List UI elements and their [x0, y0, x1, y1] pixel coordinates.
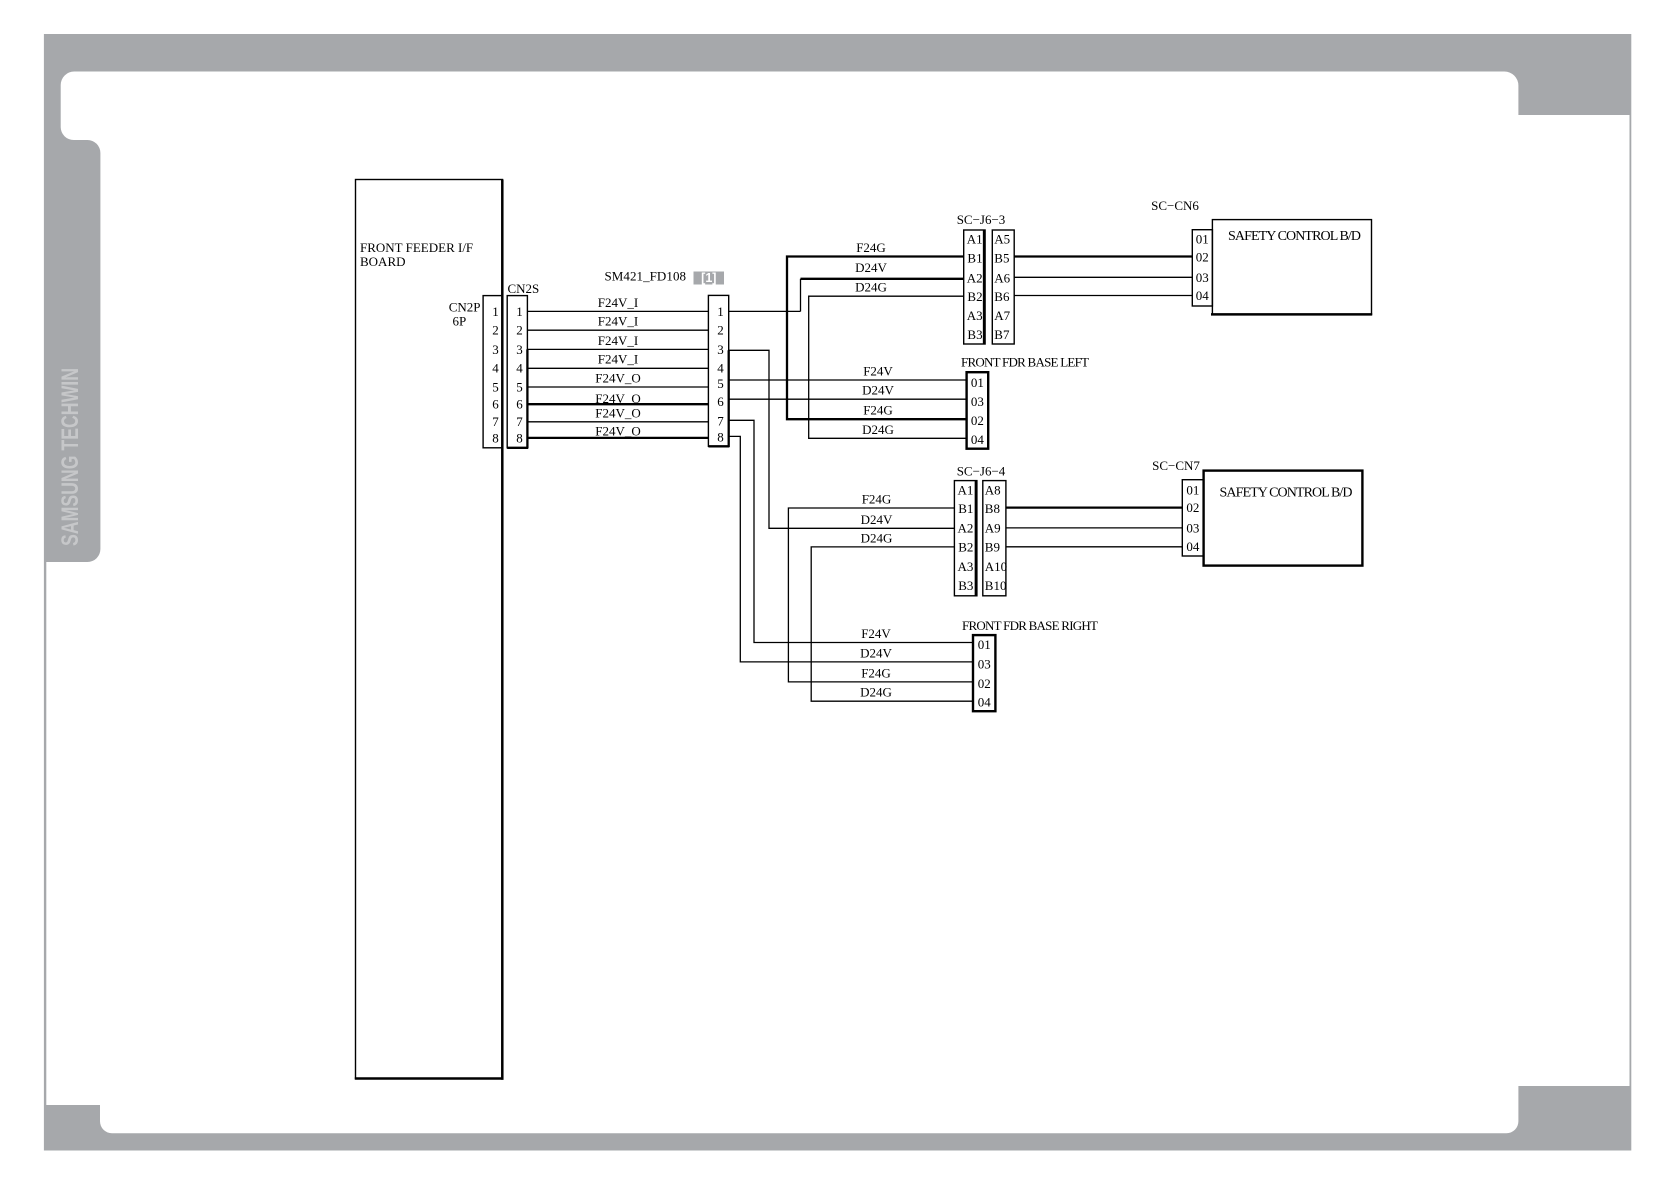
svg-text:7: 7: [492, 414, 499, 429]
svg-text:FRONT FDR BASE LEFT: FRONT FDR BASE LEFT: [961, 355, 1089, 370]
svg-text:01: 01: [1196, 232, 1209, 247]
svg-text:4: 4: [516, 361, 523, 376]
svg-text:B5: B5: [994, 250, 1009, 265]
svg-text:BOARD: BOARD: [360, 254, 406, 269]
svg-text:D24V: D24V: [860, 645, 892, 660]
svg-text:04: 04: [1186, 539, 1200, 554]
svg-text:F24V: F24V: [861, 626, 891, 641]
svg-text:5: 5: [516, 379, 523, 394]
svg-text:B9: B9: [985, 540, 1000, 555]
svg-text:SM421_FD108: SM421_FD108: [605, 269, 687, 284]
svg-text:A5: A5: [994, 231, 1010, 246]
svg-text:2: 2: [516, 323, 523, 338]
svg-text:D24G: D24G: [860, 685, 892, 700]
svg-text:F24G: F24G: [862, 492, 892, 507]
svg-text:A8: A8: [985, 482, 1001, 497]
svg-text:SC−CN7: SC−CN7: [1152, 458, 1200, 473]
svg-text:01: 01: [978, 637, 991, 652]
svg-text:B3: B3: [958, 578, 973, 593]
svg-text:A6: A6: [994, 270, 1010, 285]
svg-text:F24V_I: F24V_I: [598, 352, 638, 367]
svg-text:F24V_I: F24V_I: [598, 295, 638, 310]
svg-text:SAFETY CONTROL B/D: SAFETY CONTROL B/D: [1228, 229, 1361, 244]
svg-text:02: 02: [1196, 250, 1209, 265]
svg-text:SAMSUNG TECHWIN: SAMSUNG TECHWIN: [57, 368, 84, 546]
svg-text:B1: B1: [967, 250, 982, 265]
svg-text:SAFETY CONTROL B/D: SAFETY CONTROL B/D: [1220, 486, 1353, 501]
svg-text:01: 01: [971, 375, 984, 390]
svg-text:6: 6: [717, 394, 724, 409]
svg-text:CN2S: CN2S: [508, 281, 540, 296]
svg-text:1: 1: [492, 304, 499, 319]
svg-text:F24V_I: F24V_I: [598, 333, 638, 348]
svg-text:03: 03: [1186, 520, 1199, 535]
svg-text:F24V_I: F24V_I: [598, 314, 638, 329]
svg-text:SC−J6−4: SC−J6−4: [957, 464, 1006, 479]
svg-text:7: 7: [516, 414, 523, 429]
svg-text:D24G: D24G: [862, 422, 894, 437]
svg-text:F24V_O: F24V_O: [595, 424, 641, 439]
svg-text:F24V_O: F24V_O: [595, 391, 641, 406]
svg-text:5: 5: [717, 376, 724, 391]
svg-text:6P: 6P: [453, 314, 467, 329]
svg-text:D24G: D24G: [861, 530, 893, 545]
svg-text:[1]: [1]: [701, 271, 716, 285]
svg-text:F24V_O: F24V_O: [595, 370, 641, 385]
svg-text:02: 02: [1186, 500, 1199, 515]
svg-text:03: 03: [978, 656, 991, 671]
svg-text:FRONT FDR BASE RIGHT: FRONT FDR BASE RIGHT: [962, 618, 1098, 633]
svg-text:03: 03: [971, 394, 984, 409]
svg-text:F24V_O: F24V_O: [595, 406, 641, 421]
svg-text:FRONT FEEDER I/F: FRONT FEEDER I/F: [360, 240, 473, 255]
svg-text:B2: B2: [958, 540, 973, 555]
svg-text:4: 4: [492, 361, 499, 376]
svg-text:A3: A3: [967, 308, 983, 323]
svg-text:4: 4: [717, 361, 724, 376]
svg-text:A2: A2: [958, 521, 974, 536]
svg-text:3: 3: [492, 342, 499, 357]
svg-text:3: 3: [717, 342, 724, 357]
svg-text:6: 6: [492, 397, 499, 412]
svg-text:A9: A9: [985, 521, 1001, 536]
svg-text:8: 8: [492, 430, 499, 445]
svg-text:SC−J6−3: SC−J6−3: [957, 212, 1006, 227]
svg-text:A10: A10: [985, 559, 1007, 574]
svg-text:A1: A1: [958, 482, 974, 497]
svg-text:D24G: D24G: [855, 280, 887, 295]
svg-text:1: 1: [717, 304, 724, 319]
svg-text:04: 04: [978, 695, 992, 710]
svg-text:B3: B3: [967, 327, 982, 342]
svg-text:8: 8: [717, 430, 724, 445]
svg-text:F24G: F24G: [863, 403, 893, 418]
svg-text:F24V: F24V: [863, 364, 893, 379]
svg-text:3: 3: [516, 342, 523, 357]
svg-text:8: 8: [516, 430, 523, 445]
svg-text:04: 04: [971, 432, 985, 447]
svg-text:D24V: D24V: [861, 512, 893, 527]
svg-text:B10: B10: [985, 578, 1007, 593]
svg-text:D24V: D24V: [855, 260, 887, 275]
svg-text:D24V: D24V: [862, 383, 894, 398]
svg-text:CN2P: CN2P: [449, 300, 481, 315]
svg-text:2: 2: [492, 323, 499, 338]
svg-text:B6: B6: [994, 289, 1010, 304]
svg-text:6: 6: [516, 397, 523, 412]
svg-text:02: 02: [978, 676, 991, 691]
svg-text:A7: A7: [994, 308, 1010, 323]
svg-text:A3: A3: [958, 559, 974, 574]
svg-text:03: 03: [1196, 270, 1209, 285]
svg-text:1: 1: [516, 304, 523, 319]
svg-text:F24G: F24G: [856, 240, 886, 255]
svg-text:01: 01: [1186, 483, 1199, 498]
svg-text:2: 2: [717, 323, 724, 338]
svg-text:A2: A2: [967, 270, 983, 285]
svg-text:B2: B2: [967, 289, 982, 304]
svg-text:SC−CN6: SC−CN6: [1151, 198, 1199, 213]
svg-text:B7: B7: [994, 327, 1010, 342]
svg-text:F24G: F24G: [861, 665, 891, 680]
svg-text:B8: B8: [985, 501, 1000, 516]
svg-text:A1: A1: [967, 231, 983, 246]
svg-text:5: 5: [492, 379, 499, 394]
svg-text:04: 04: [1196, 288, 1210, 303]
svg-text:B1: B1: [958, 501, 973, 516]
svg-text:02: 02: [971, 413, 984, 428]
svg-text:7: 7: [717, 413, 724, 428]
